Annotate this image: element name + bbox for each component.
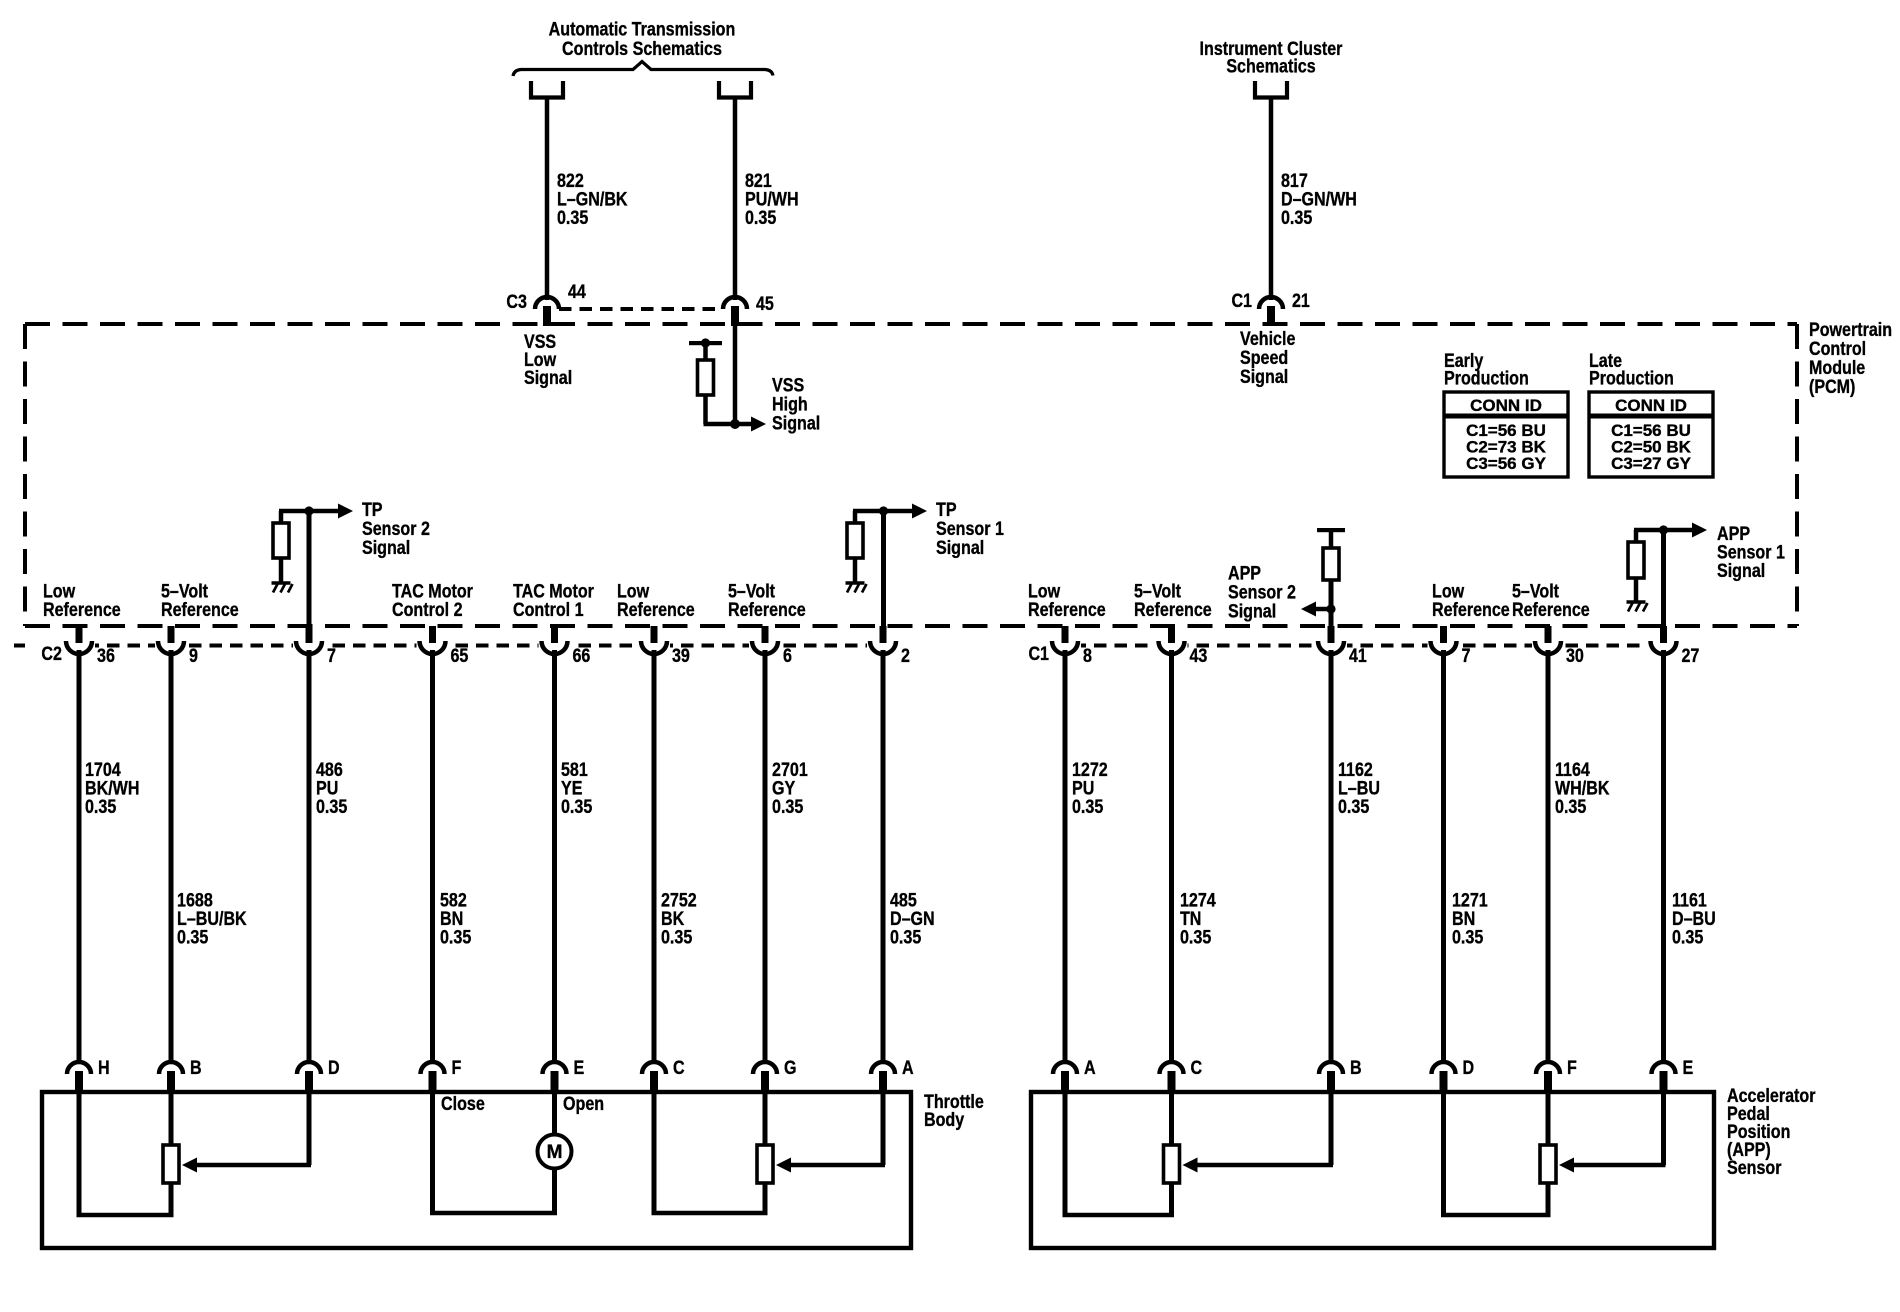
svg-text:Signal: Signal — [524, 367, 572, 389]
table CONN ID late production — [1589, 392, 1713, 477]
svg-text:Reference: Reference — [728, 598, 806, 620]
svg-text:0.35: 0.35 — [85, 796, 116, 818]
PCM box bottom dashed border — [25, 624, 1797, 628]
svg-text:F: F — [451, 1057, 461, 1079]
PCM box right dashed border — [1795, 324, 1799, 626]
connector throttle body pin B — [159, 1062, 183, 1074]
potentiometer APP sensor 2 — [1540, 1145, 1556, 1183]
svg-text:Schematics: Schematics — [1226, 55, 1315, 77]
arrow wiper APP pot 1 — [1183, 1158, 1198, 1173]
svg-text:Production: Production — [1444, 367, 1529, 389]
dashed connector line C2 (group 1) — [14, 644, 25, 648]
wire 486 (7-D) — [307, 650, 312, 1062]
masks under connector cups — [63, 640, 95, 652]
svg-text:C3=56 GY: C3=56 GY — [1466, 454, 1547, 473]
connector APP sensor pin C — [1160, 1062, 1184, 1074]
svg-text:E: E — [1682, 1057, 1693, 1079]
wire 582 (65-F) — [430, 650, 435, 1062]
svg-text:44: 44 — [568, 281, 586, 303]
wire 1688 (9-B) — [169, 650, 174, 1062]
wire rail to resistor (APP2) — [1329, 530, 1334, 549]
connector C2 pin 66 — [551, 626, 558, 643]
svg-text:F: F — [1567, 1057, 1577, 1079]
connector C1 pin 8 — [1062, 626, 1069, 643]
potentiometer TP sensor 2 (throttle) — [757, 1145, 773, 1183]
connector C1 pin 30 — [1545, 626, 1552, 643]
table CONN ID early production — [1444, 392, 1568, 477]
arrow wiper TP pot 1 — [182, 1158, 197, 1173]
arrow wiper APP pot 2 — [1559, 1158, 1574, 1173]
connector C1 pin 27 — [1660, 626, 1667, 643]
wire pin B to wiper arrow (APP) — [1329, 1092, 1334, 1165]
accelerator pedal position sensor box — [1031, 1092, 1714, 1248]
dashed connector line C1 (group 2) — [1053, 644, 1663, 648]
svg-text:Reference: Reference — [617, 598, 695, 620]
svg-text:0.35: 0.35 — [557, 207, 588, 229]
node TP sensor 2 signal — [304, 506, 313, 515]
svg-text:0.35: 0.35 — [1452, 926, 1483, 948]
wire pin B to TP pot 1 — [169, 1092, 174, 1146]
svg-text:M: M — [547, 1142, 563, 1163]
wire F-motor link — [430, 1211, 557, 1216]
ground (TP sensor 2) — [272, 581, 291, 584]
svg-text:Control 1: Control 1 — [513, 598, 584, 620]
svg-text:0.35: 0.35 — [316, 796, 347, 818]
svg-text:C2: C2 — [41, 643, 62, 665]
svg-text:7: 7 — [1462, 645, 1471, 667]
svg-text:H: H — [98, 1057, 110, 1079]
node VSS high junction — [730, 419, 740, 429]
wire APP pot 2 bottom — [1546, 1183, 1551, 1215]
svg-text:0.35: 0.35 — [661, 926, 692, 948]
svg-text:0.35: 0.35 — [1281, 207, 1312, 229]
svg-text:65: 65 — [450, 645, 468, 667]
connector C3 pin 45 — [723, 297, 747, 309]
svg-text:6: 6 — [783, 645, 792, 667]
wire pin G to TP pot 2 — [763, 1092, 768, 1146]
wire pin H down — [77, 1092, 82, 1215]
svg-text:0.35: 0.35 — [1555, 796, 1586, 818]
svg-text:CONN ID: CONN ID — [1615, 396, 1687, 415]
svg-text:Reference: Reference — [1432, 598, 1510, 620]
wire 821 inside PCM — [733, 326, 738, 424]
node on VSS bias rail — [701, 338, 710, 347]
wire pin A down (APP) — [1063, 1092, 1068, 1215]
resistor (APP sensor 2 pull-up) — [1323, 548, 1339, 580]
svg-text:45: 45 — [756, 293, 774, 315]
svg-text:Open: Open — [563, 1093, 604, 1115]
svg-text:Signal: Signal — [1228, 600, 1276, 622]
arrow VSS High Signal — [735, 422, 752, 427]
brace linking transmission wires — [513, 62, 773, 77]
wire APP sensor 1 signal to pin 27 — [1661, 530, 1666, 628]
connector C1 pin 21 — [1259, 297, 1283, 309]
connector C2 pin 6 — [762, 626, 769, 643]
wire resistor to ground (TP2) — [279, 558, 284, 583]
off-page connector symbol (wire 821 to A/T schematics) — [719, 81, 751, 98]
connector C1 pin 7 — [1440, 626, 1447, 643]
svg-text:66: 66 — [573, 645, 591, 667]
svg-text:Close: Close — [441, 1093, 485, 1115]
wire resistor to ground (APP1) — [1634, 578, 1639, 602]
svg-text:A: A — [902, 1057, 914, 1079]
ground (APP sensor 1) — [1627, 600, 1646, 603]
wire 1164 (30-F) — [1546, 650, 1551, 1062]
resistor (APP sensor 1 pull-down) — [1628, 542, 1644, 578]
resistor (VSS high bias) — [698, 360, 714, 395]
wire pin C to APP pot 1 — [1169, 1092, 1174, 1146]
svg-text:CONN ID: CONN ID — [1470, 396, 1542, 415]
svg-text:0.35: 0.35 — [1180, 926, 1211, 948]
svg-text:C3=27 GY: C3=27 GY — [1611, 454, 1692, 473]
svg-text:Signal: Signal — [1717, 560, 1765, 582]
wire pin E to wiper arrow (APP) — [1661, 1092, 1666, 1165]
svg-text:0.35: 0.35 — [177, 926, 208, 948]
connector throttle body pin H — [67, 1062, 91, 1074]
wire A-pot link (APP1) — [1063, 1213, 1175, 1218]
connector throttle body pin G — [753, 1062, 777, 1074]
connector C2 pin 7 — [306, 626, 313, 643]
svg-text:Signal: Signal — [362, 537, 410, 559]
wire motor bottom — [552, 1169, 557, 1214]
svg-text:C3: C3 — [506, 291, 527, 313]
internal voltage rail bar (VSS bias) — [689, 341, 722, 345]
wire 1274 (43-C) — [1169, 650, 1174, 1062]
svg-text:36: 36 — [97, 645, 115, 667]
connector throttle body pin A — [871, 1062, 895, 1074]
svg-text:2: 2 — [901, 645, 910, 667]
svg-text:C: C — [673, 1057, 685, 1079]
wire pin C down — [652, 1092, 657, 1213]
wire 821 (upper segment) — [733, 100, 738, 301]
motor M (TAC) — [538, 1135, 572, 1169]
connector C1 pin 43 — [1168, 626, 1175, 643]
wire D-pot link (APP2) — [1441, 1213, 1551, 1218]
wire pin D down (APP) — [1441, 1092, 1446, 1215]
svg-text:C: C — [1190, 1057, 1202, 1079]
wire C to TP pot 2 link — [652, 1211, 768, 1216]
wire resistor to ground (TP1) — [853, 558, 858, 583]
dashed connector line between pins 44 and 45 — [559, 307, 723, 311]
svg-text:B: B — [1350, 1057, 1362, 1079]
svg-text:(PCM): (PCM) — [1809, 376, 1855, 398]
wire 2701 (6-G) — [763, 650, 768, 1062]
wire TP sensor 2 signal to pin 7 — [307, 511, 312, 628]
wire 1162 (41-B) — [1329, 650, 1334, 1062]
arrow TP Sensor 1 Signal — [884, 509, 914, 514]
wire 817 — [1269, 100, 1274, 301]
node APP sensor 1 signal — [1659, 525, 1668, 534]
connector APP sensor pin B — [1319, 1062, 1343, 1074]
wire 1704 (36-H) — [77, 650, 82, 1062]
wire TP pot 2 bottom — [763, 1183, 768, 1213]
wire 485 (2-A) — [881, 650, 886, 1062]
arrow wiper TP pot 2 — [776, 1158, 791, 1173]
connector C2 pin 36 — [76, 626, 83, 643]
wire 1272 (8-A) — [1063, 650, 1068, 1062]
svg-text:Reference: Reference — [1512, 598, 1590, 620]
svg-text:Controls Schematics: Controls Schematics — [562, 38, 722, 60]
node TP sensor 1 signal — [879, 506, 888, 515]
resistor (TP sensor 1 pull-down) — [847, 523, 863, 558]
wire pin F down (Close) — [430, 1092, 435, 1213]
svg-text:7: 7 — [327, 645, 336, 667]
svg-text:D: D — [328, 1057, 340, 1079]
wire TP sensor 2 resistor top bend — [279, 511, 284, 524]
potentiometer APP sensor 1 — [1164, 1145, 1180, 1183]
wire APP pot 1 bottom — [1169, 1183, 1174, 1215]
wire from rail to VSS pull-up resistor — [703, 343, 708, 362]
svg-text:9: 9 — [189, 645, 198, 667]
svg-text:27: 27 — [1681, 645, 1699, 667]
connector throttle body pin F — [421, 1062, 445, 1074]
connector APP sensor pin D — [1432, 1062, 1456, 1074]
wire 1271 (7-D) — [1441, 650, 1446, 1062]
wire pin F to APP pot 2 — [1546, 1092, 1551, 1146]
connector C1 pin 41 — [1328, 626, 1335, 643]
connector C2 pin 65 — [429, 626, 436, 643]
connector APP sensor pin A — [1053, 1062, 1077, 1074]
svg-text:A: A — [1084, 1057, 1096, 1079]
PCM box left dashed border — [23, 324, 27, 626]
arrow TP Sensor 2 Signal — [309, 509, 339, 514]
svg-text:30: 30 — [1566, 645, 1584, 667]
PCM box top dashed border — [25, 322, 1797, 326]
svg-text:0.35: 0.35 — [745, 207, 776, 229]
svg-text:0.35: 0.35 — [890, 926, 921, 948]
off-page connector symbol (wire 822 to A/T schematics) — [531, 81, 563, 98]
svg-text:43: 43 — [1190, 645, 1208, 667]
wire from resistor to VSS high node — [703, 395, 708, 424]
wire APP sensor 1 resistor top bend — [1634, 530, 1639, 543]
svg-text:D: D — [1463, 1057, 1475, 1079]
svg-text:0.35: 0.35 — [1072, 796, 1103, 818]
connector C2 pin 9 — [168, 626, 175, 643]
svg-text:0.35: 0.35 — [440, 926, 471, 948]
connector C3 pin 44 — [535, 297, 559, 309]
ground (TP sensor 1) — [846, 581, 865, 584]
connector throttle body pin D — [297, 1062, 321, 1074]
wire TP pot 1 bottom — [169, 1183, 174, 1215]
svg-text:Signal: Signal — [772, 412, 820, 434]
throttle body box — [42, 1092, 911, 1248]
connector C2 pin 39 — [651, 626, 658, 643]
svg-text:G: G — [784, 1057, 797, 1079]
svg-text:Production: Production — [1589, 367, 1674, 389]
wire 1161 (27-E) — [1661, 650, 1666, 1062]
connector APP sensor pin E — [1652, 1062, 1676, 1074]
connector C2 pin 2 — [880, 626, 887, 643]
svg-text:C1: C1 — [1231, 290, 1252, 312]
svg-text:C1: C1 — [1028, 643, 1049, 665]
svg-text:Reference: Reference — [43, 598, 121, 620]
svg-text:Signal: Signal — [936, 537, 984, 559]
wire pin D to wiper arrow — [307, 1092, 312, 1165]
wire 822 — [545, 100, 550, 301]
resistor (TP sensor 2 pull-down) — [273, 523, 289, 558]
svg-text:B: B — [190, 1057, 202, 1079]
svg-text:Reference: Reference — [1134, 598, 1212, 620]
wire pin A to wiper arrow — [881, 1092, 886, 1165]
svg-text:Sensor: Sensor — [1727, 1157, 1782, 1179]
internal voltage rail bar (APP sensor 2) — [1317, 528, 1345, 532]
connector throttle body pin E — [543, 1062, 567, 1074]
node APP sensor 2 signal — [1326, 604, 1335, 613]
svg-text:0.35: 0.35 — [772, 796, 803, 818]
svg-text:0.35: 0.35 — [561, 796, 592, 818]
svg-text:Reference: Reference — [1028, 598, 1106, 620]
svg-text:21: 21 — [1292, 290, 1310, 312]
wire H-B link — [77, 1213, 174, 1218]
connector APP sensor pin F — [1536, 1062, 1560, 1074]
svg-text:E: E — [573, 1057, 584, 1079]
wire resistor to pin 41 — [1329, 580, 1334, 628]
svg-text:Body: Body — [924, 1109, 964, 1131]
svg-text:Control 2: Control 2 — [392, 598, 463, 620]
svg-text:41: 41 — [1349, 645, 1367, 667]
svg-text:0.35: 0.35 — [1338, 796, 1369, 818]
wire 581 (66-E) — [552, 650, 557, 1062]
svg-text:8: 8 — [1083, 645, 1092, 667]
arrow APP Sensor 1 Signal — [1664, 528, 1694, 533]
arrow APP Sensor 2 Signal (pointing left) — [1316, 607, 1331, 612]
svg-text:39: 39 — [672, 645, 690, 667]
wire TP sensor 1 signal to pin 2 — [881, 511, 886, 628]
wire TP sensor 1 resistor top bend — [853, 511, 858, 524]
svg-text:0.35: 0.35 — [1672, 926, 1703, 948]
connector throttle body pin C — [642, 1062, 666, 1074]
svg-text:Signal: Signal — [1240, 366, 1288, 388]
wire pin E to motor (Open) — [552, 1092, 557, 1135]
potentiometer TP sensor 1 (throttle) — [163, 1145, 179, 1183]
off-page connector symbol (wire 817 to instrument cluster) — [1255, 81, 1287, 98]
wire 2752 (39-C) — [652, 650, 657, 1062]
svg-text:Reference: Reference — [161, 598, 239, 620]
